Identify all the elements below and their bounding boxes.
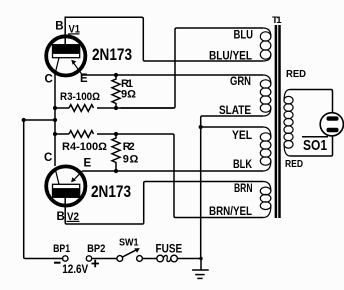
node: left rail corner <box>22 118 26 122</box>
wire: SLATE row and vertical down to fuse/ground junction <box>201 116 263 259</box>
T1 primary winding GRN / SLATE <box>260 75 271 116</box>
binding post BP2 <box>86 256 117 261</box>
svg-text:YEL: YEL <box>232 128 252 142</box>
svg-text:B: B <box>57 211 65 223</box>
svg-text:T1: T1 <box>272 15 282 26</box>
T1 primary winding BLU / BLU-YEL <box>260 28 271 61</box>
wire: secondary top RED to socket <box>290 90 333 113</box>
label minus <box>54 262 61 264</box>
transformer T1 core <box>276 25 280 218</box>
svg-text:E: E <box>80 73 88 85</box>
wire: BLU row left end down to R3 row <box>121 28 264 108</box>
svg-text:RED: RED <box>285 158 303 170</box>
svg-text:C: C <box>45 73 53 85</box>
node: R1 top on GRN row <box>114 73 118 77</box>
svg-text:R4-100Ω: R4-100Ω <box>62 141 107 153</box>
T1 primary winding YEL / BLK <box>260 127 271 171</box>
fuse <box>157 255 201 262</box>
binding post BP1 <box>63 256 68 261</box>
resistor R2 <box>112 134 120 171</box>
wire: B of V2 down, over and up to BRN row <box>65 182 263 225</box>
wire: R3 row from collector rail to R1 bottom <box>55 107 174 109</box>
wire: GRN / emitter V1 row <box>83 74 264 76</box>
svg-text:SLATE: SLATE <box>219 103 251 117</box>
transistor V1 (2N173) <box>46 36 85 75</box>
wire: left rail branch to BP1 <box>24 120 63 259</box>
wire: R2 row over to BRN/YEL row <box>55 134 263 218</box>
svg-text:BRN: BRN <box>234 181 253 195</box>
resistor R1 <box>112 75 120 108</box>
node: R2 top on R4 row <box>114 132 118 136</box>
node: R3 row on collector rail <box>53 106 57 110</box>
resistor R3 <box>69 105 94 112</box>
svg-text:R3-100Ω: R3-100Ω <box>60 91 100 103</box>
svg-text:9Ω: 9Ω <box>123 154 139 166</box>
label plus <box>92 260 100 268</box>
node: YEL branch <box>199 125 203 129</box>
svg-text:BP1: BP1 <box>53 243 70 255</box>
wire: collector rail V1 to V2 <box>54 74 56 166</box>
node: R1 bottom on R3 row <box>114 106 118 110</box>
transistor V2 (2N173) <box>46 166 85 205</box>
svg-text:B: B <box>55 20 63 32</box>
ground <box>192 259 209 279</box>
node: fuse to ground junction <box>199 257 202 260</box>
svg-text:9Ω: 9Ω <box>121 89 136 101</box>
switch SW1 <box>117 248 157 261</box>
T1 secondary winding RED / RED <box>284 90 293 157</box>
svg-text:SO1: SO1 <box>303 137 327 154</box>
wire: B of V1 up, over and down to BLU/YEL row <box>65 17 263 61</box>
node: left rail branch on collector rail <box>53 118 57 122</box>
resistor R4 <box>69 131 94 138</box>
wire: YEL row from junction <box>201 126 263 128</box>
node: R4 row on collector rail <box>53 132 57 136</box>
svg-text:2N173: 2N173 <box>92 45 132 64</box>
svg-text:E: E <box>84 158 92 170</box>
svg-text:RED: RED <box>286 68 306 80</box>
wire: secondary bottom RED to socket <box>290 136 333 156</box>
svg-text:R2: R2 <box>123 141 135 153</box>
svg-text:BLK: BLK <box>233 157 252 171</box>
svg-text:BLU: BLU <box>234 27 254 41</box>
node: R2 bottom on BLK row <box>114 169 118 173</box>
svg-text:12.6V: 12.6V <box>62 264 88 276</box>
svg-text:BRN/YEL: BRN/YEL <box>209 204 252 218</box>
svg-text:GRN: GRN <box>230 74 251 88</box>
socket SO1 <box>320 113 343 136</box>
svg-text:2N173: 2N173 <box>91 182 131 201</box>
svg-text:FUSE: FUSE <box>156 243 183 255</box>
T1 primary winding BRN / BRN-YEL <box>260 182 271 218</box>
svg-text:BLU/YEL: BLU/YEL <box>209 48 252 62</box>
svg-text:C: C <box>44 152 52 164</box>
svg-text:SW1: SW1 <box>119 237 139 249</box>
svg-text:BP2: BP2 <box>87 243 105 255</box>
wire: BLK / emitter V2 row <box>83 170 264 172</box>
